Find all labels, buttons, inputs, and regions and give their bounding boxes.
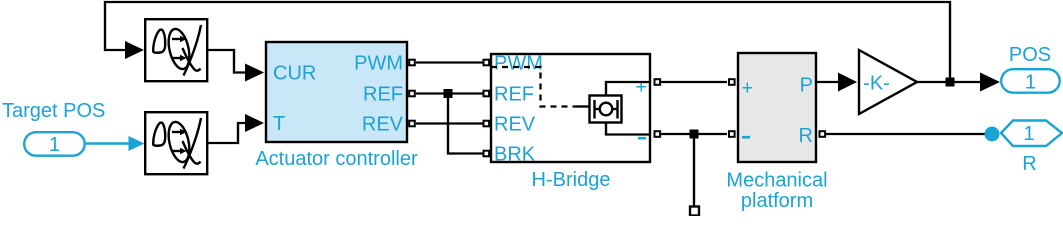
port square REV out (409, 121, 415, 127)
wire arrow into converter U1 (125, 41, 144, 59)
port square + out (655, 79, 661, 85)
svg-text:platform: platform (741, 190, 813, 212)
port square REF out (409, 91, 415, 97)
svg-text:REV: REV (494, 114, 536, 136)
port square - in platform (729, 131, 735, 137)
outport 1 POS (1001, 69, 1059, 93)
svg-text:+: + (635, 77, 647, 99)
block Actuator controller (266, 42, 407, 142)
block Mechanical platform (738, 53, 816, 162)
gain -K- (859, 50, 917, 114)
svg-text:-K-: -K- (863, 73, 890, 95)
wire arrow into T (245, 114, 264, 132)
node junction after gain (946, 78, 955, 87)
svg-text:PWM: PWM (354, 53, 403, 75)
svg-text:T: T (273, 113, 285, 135)
driver icon inside H-Bridge (590, 96, 622, 123)
converter U1 (Simulink-PS Converter) (145, 19, 207, 81)
port square REV in (484, 121, 490, 127)
node junction on - wire (690, 130, 699, 139)
wire REF (416, 92, 483, 94)
svg-text:REF: REF (494, 84, 534, 106)
wire P to gain (817, 81, 839, 83)
wire arrow into gain (838, 73, 857, 92)
converter U2 (Simulink-PS Converter) (145, 112, 207, 174)
svg-text:POS: POS (1009, 44, 1051, 66)
wire feedback from gain output to converter U1 input (105, 2, 950, 82)
port square PWM out (409, 60, 415, 66)
svg-text:R: R (799, 125, 813, 147)
svg-text:1: 1 (1025, 72, 1036, 94)
wire Target POS to converter U2 (86, 142, 130, 144)
svg-text:CUR: CUR (273, 63, 316, 85)
svg-text:REV: REV (362, 114, 404, 136)
port square BRK in (484, 151, 490, 157)
port square - out (655, 131, 661, 137)
inport 1 Target POS (24, 132, 84, 156)
svg-text:Target POS: Target POS (2, 100, 105, 122)
wire arrow into POS outport (980, 73, 1000, 92)
port square REF in (484, 91, 490, 97)
wire driver icon to - port (606, 123, 651, 135)
wire stub into driver icon (577, 105, 589, 107)
svg-text:1: 1 (1023, 123, 1034, 145)
wire gain to POS outport (917, 81, 981, 83)
port square + in platform (729, 79, 735, 85)
wire arrow into converter U2 (129, 136, 145, 151)
wire PWM (416, 61, 483, 63)
svg-text:P: P (800, 75, 813, 97)
open port square at stub end (690, 207, 699, 216)
port square R out (820, 131, 826, 137)
connection port 1 R (hexagon) (1001, 121, 1062, 147)
svg-text:Actuator controller: Actuator controller (255, 148, 418, 170)
wire REV (416, 122, 483, 124)
port square PWM in (484, 60, 490, 66)
wire from converter U2 to T input (207, 123, 246, 143)
svg-text:1: 1 (49, 134, 60, 156)
block H-Bridge (491, 54, 650, 162)
wire - to platform (661, 133, 727, 135)
node connection dot (985, 127, 1000, 142)
node junction on REF wire (444, 89, 453, 98)
svg-text:REF: REF (363, 84, 403, 106)
wire stub down from junction (693, 134, 695, 206)
wire R to connection port (826, 133, 986, 135)
svg-text:PWM: PWM (494, 53, 543, 75)
wire junction to BRK (448, 94, 483, 154)
svg-text:-: - (741, 116, 752, 153)
svg-text:+: + (742, 78, 754, 100)
svg-text:R: R (1022, 153, 1036, 175)
svg-text:Mechanical: Mechanical (726, 170, 827, 192)
svg-text:BRK: BRK (494, 144, 536, 166)
wire dashed PWM to driver icon (491, 67, 578, 107)
svg-text:H-Bridge: H-Bridge (532, 169, 611, 191)
wire + to platform (661, 81, 727, 83)
wire from converter U1 to CUR input (207, 50, 246, 73)
wire arrow into CUR (245, 64, 264, 82)
wire driver icon to + port (606, 82, 651, 95)
